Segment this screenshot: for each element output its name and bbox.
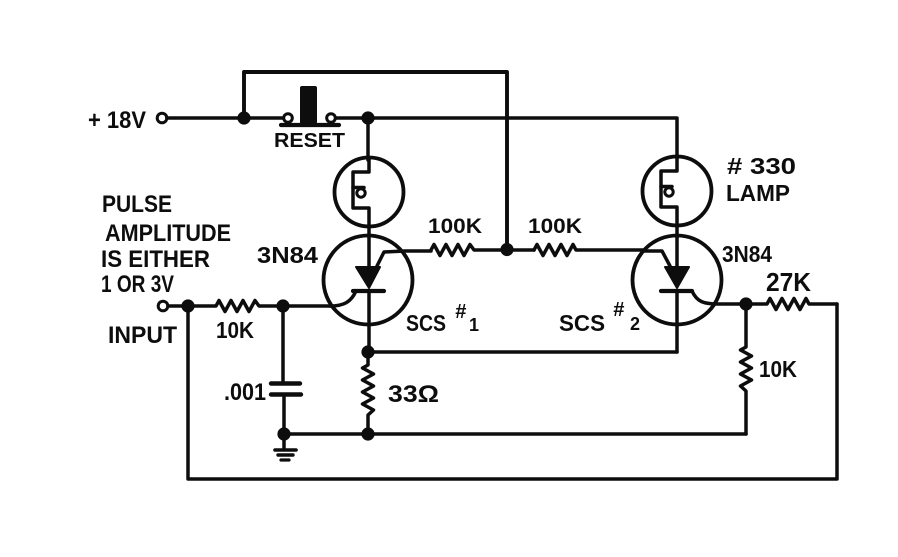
svg-text:INPUT: INPUT	[108, 322, 177, 349]
svg-text:#: #	[613, 299, 625, 321]
svg-text:1 OR 3V: 1 OR 3V	[101, 271, 174, 298]
svg-text:3N84: 3N84	[722, 241, 772, 267]
node E junction dot input	[181, 299, 194, 312]
SCS U2 3N84	[633, 236, 747, 353]
svg-text:IS EITHER: IS EITHER	[101, 246, 210, 273]
node B junction dot at +18V rail / lamp1 drop	[361, 111, 374, 124]
wire: reset bypass top loop	[244, 72, 507, 249]
resistor R3 100K (right)	[534, 245, 643, 256]
svg-text:SCS: SCS	[559, 310, 605, 336]
wire: SCS1 cathode to SCS2 cathode	[368, 350, 677, 354]
svg-text:33Ω: 33Ω	[388, 381, 439, 408]
node H junction dot 33ohm bottom	[361, 427, 374, 440]
svg-text:PULSE: PULSE	[102, 191, 172, 218]
svg-text:100K: 100K	[428, 215, 482, 238]
resistor R5 27K	[746, 299, 837, 310]
node I junction dot SCS2 gate / 27K / 10K	[739, 297, 752, 310]
wire: ground rail y434	[284, 432, 746, 436]
svg-text:RESET: RESET	[274, 130, 345, 152]
svg-text:100K: 100K	[528, 215, 582, 238]
svg-text:LAMP: LAMP	[726, 180, 790, 206]
label SCS #1	[406, 301, 479, 336]
svg-text:27K: 27K	[766, 267, 811, 297]
svg-text:SCS: SCS	[406, 310, 446, 336]
svg-text:.001: .001	[224, 379, 266, 406]
resistor R1 10K input	[168, 301, 331, 312]
node D junction dot between 100K resistors	[500, 243, 513, 256]
node A junction dot at +18V rail / top loop	[237, 111, 250, 124]
resistor R2 100K (left)	[431, 245, 534, 256]
SCS U1 3N84	[324, 236, 432, 353]
svg-text:AMPLITUDE: AMPLITUDE	[105, 220, 231, 247]
terminal: INPUT open circle	[158, 301, 168, 311]
switch S1 RESET pushbutton	[281, 86, 339, 125]
resistor R4 33ohm	[363, 352, 374, 434]
svg-text:1: 1	[469, 315, 479, 335]
svg-text:3N84: 3N84	[257, 242, 318, 268]
svg-text:# 330: # 330	[727, 153, 796, 179]
svg-text:10K: 10K	[759, 356, 797, 382]
svg-text:#: #	[455, 301, 467, 323]
wire: lamp1 feed drop	[366, 118, 370, 160]
terminal: +18V input open circle	[157, 113, 167, 123]
svg-text:2: 2	[630, 314, 640, 334]
node F junction dot 10K / capacitor	[276, 299, 289, 312]
wire: +18V rail right segment to lamp2 drop	[336, 118, 677, 158]
svg-text:+ 18V: + 18V	[88, 107, 146, 134]
wire: +18V rail left segment	[167, 116, 283, 120]
lamp DS2 #330	[643, 157, 712, 238]
ground symbol	[275, 434, 296, 460]
resistor R6 10K (right)	[741, 304, 752, 434]
capacitor C1 .001	[271, 306, 301, 434]
lamp DS1	[335, 158, 404, 238]
svg-text:10K: 10K	[216, 317, 254, 343]
node G junction dot capacitor bottom	[277, 427, 290, 440]
label SCS #2	[559, 299, 640, 336]
node C junction dot SCS1 cathode	[361, 345, 374, 358]
wire: input down, bottom rail, right riser	[188, 304, 837, 479]
